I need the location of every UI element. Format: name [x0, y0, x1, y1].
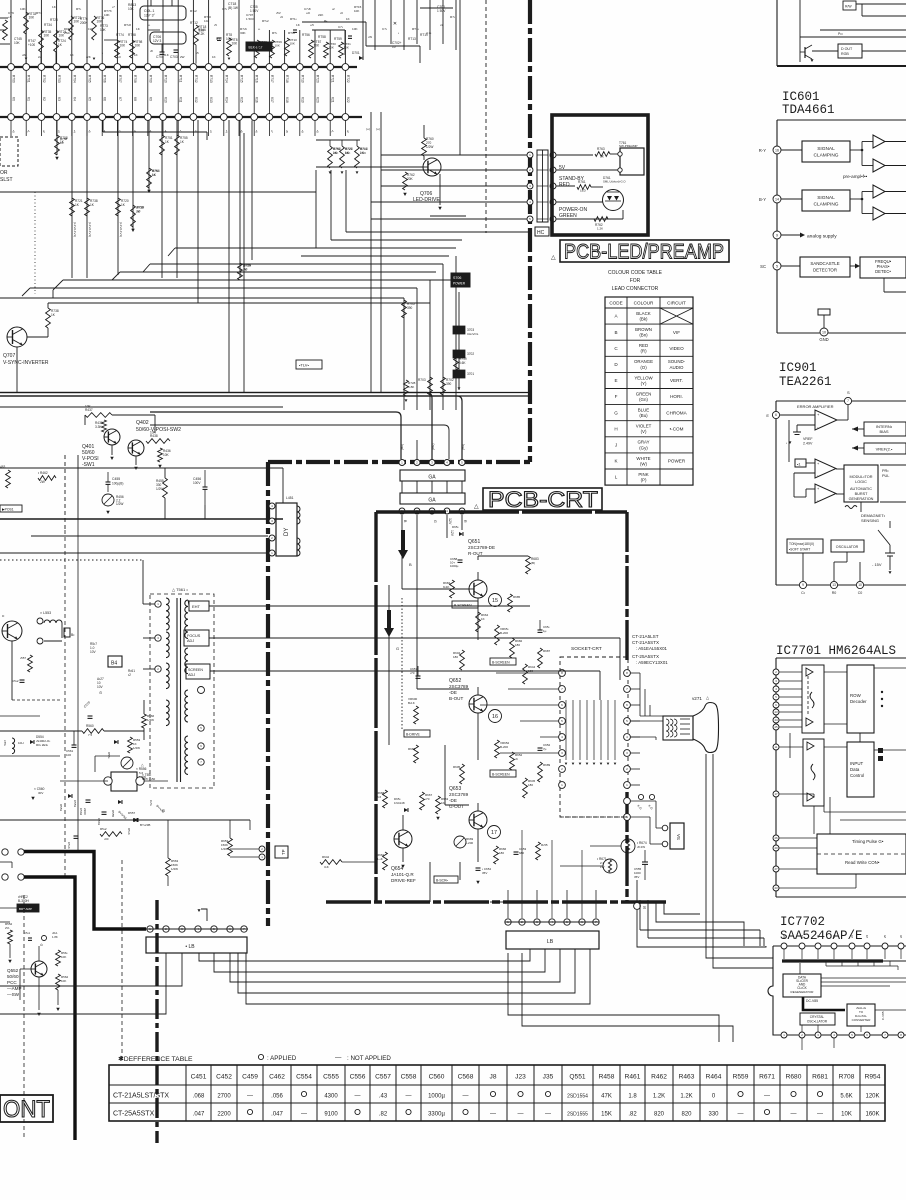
svg-text:VERT.: VERT.	[670, 378, 683, 383]
svg-text:V17: V17	[270, 97, 274, 103]
svg-text:30V: 30V	[38, 791, 43, 795]
svg-text:•5: •5	[240, 130, 244, 133]
svg-text:1/4W: 1/4W	[147, 718, 154, 722]
boxed label B-SCREEN1	[452, 601, 478, 608]
svg-text:10: 10	[858, 583, 862, 587]
wire	[442, 0, 444, 44]
wire	[590, 845, 621, 847]
svg-text:B: B	[409, 562, 412, 567]
svg-text:2.2K: 2.2K	[360, 151, 366, 155]
connector GA bar 2	[400, 493, 465, 504]
flyback primary pins	[155, 601, 161, 607]
LB left pins	[147, 926, 153, 932]
svg-text:C704: C704	[156, 55, 164, 59]
svg-text:LED-DRIVE: LED-DRIVE	[413, 197, 440, 203]
svg-text:2W: 2W	[40, 480, 45, 484]
wire Q706 base	[316, 166, 423, 168]
DY pin 2	[269, 518, 275, 524]
svg-text:330: 330	[708, 1112, 719, 1118]
svg-text:Control: Control	[850, 773, 864, 778]
svg-text:•0: •0	[164, 130, 168, 133]
svg-text:VREF(2.•: VREF(2.•	[876, 447, 893, 452]
svg-text:V15: V15	[240, 97, 244, 103]
svg-text:B4: B4	[111, 661, 117, 667]
svg-text:H: H	[614, 426, 617, 431]
diode D558	[139, 819, 141, 821]
svg-text:GRAY: GRAY	[637, 440, 649, 445]
wire bundle between socket columns	[565, 700, 567, 760]
svg-text:× L553: × L553	[40, 611, 51, 615]
svg-text:180: 180	[499, 851, 504, 855]
svg-text:LOGIC: LOGIC	[855, 480, 867, 484]
wire pin5 loop	[556, 218, 623, 220]
wire	[314, 30, 316, 64]
socket pin L3	[559, 702, 566, 709]
resistor R662	[383, 852, 388, 870]
ground arrow	[403, 193, 407, 196]
svg-text:10K: 10K	[128, 7, 135, 11]
svg-text:3701: 3701	[467, 372, 474, 376]
pin S	[634, 903, 641, 910]
svg-text:CODE: CODE	[609, 301, 622, 306]
svg-text:R559: R559	[733, 1074, 749, 1081]
svg-text:—AMP: —AMP	[7, 986, 22, 991]
svg-text:R719: R719	[300, 75, 304, 83]
pin row2-7	[99, 114, 106, 121]
wire	[56, 0, 58, 64]
svg-text:B-SCREEN: B-SCREEN	[492, 773, 510, 777]
svg-text:1000µ: 1000µ	[428, 1094, 445, 1100]
vref2 box	[864, 443, 906, 454]
svg-text:RT12: RT12	[190, 21, 198, 25]
wire column x177	[176, 120, 178, 278]
row to input vertical	[859, 733, 861, 742]
svg-text:G: G	[433, 520, 437, 523]
wire column x57	[56, 120, 58, 155]
IC901 left border	[775, 401, 777, 585]
svg-text:GA: GA	[428, 475, 436, 481]
IC7701 left border	[775, 658, 777, 897]
pin row1-14	[205, 64, 212, 71]
IC7701 pin 26	[773, 835, 779, 841]
svg-text:21: 21	[832, 934, 836, 938]
svg-text:(W): (W)	[640, 461, 648, 466]
svg-text:GND: GND	[819, 337, 828, 342]
squiggle demagnet	[845, 506, 857, 509]
svg-text:R718: R718	[285, 75, 289, 83]
resistor R562h	[100, 832, 122, 837]
svg-text:D65•: D65•	[452, 525, 459, 529]
svg-text:B-OUT: B-OUT	[449, 696, 463, 701]
svg-text:—: —	[247, 1094, 253, 1100]
svg-text:R711: R711	[179, 75, 183, 83]
resistor R762b	[403, 172, 408, 190]
wire	[147, 0, 149, 64]
nested corner wires extra	[656, 902, 744, 946]
svg-text:SOUND-: SOUND-	[668, 359, 686, 364]
svg-text:2SD1555: 2SD1555	[567, 1112, 588, 1118]
svg-text:2200: 2200	[217, 1112, 231, 1118]
svg-text:24: 24	[774, 718, 778, 722]
resistor R689	[538, 762, 543, 782]
pin 7 S	[844, 397, 851, 404]
IC7701 pin 23b	[773, 885, 779, 891]
box D OUT RGB	[838, 44, 862, 58]
socket pin R4	[624, 718, 631, 725]
horizontal link y132	[103, 131, 207, 133]
svg-text:12V: 12V	[450, 530, 454, 537]
resistor RT76	[92, 16, 97, 40]
box EHT	[189, 601, 209, 611]
svg-text:—: —	[490, 1112, 496, 1118]
nested corner wires right	[667, 905, 706, 907]
svg-text:: APPLIED: : APPLIED	[267, 1055, 297, 1062]
capacitor C563	[102, 811, 107, 813]
pin row2-3	[38, 114, 45, 121]
svg-text:CT-21A5LST: CT-21A5LST	[632, 634, 659, 639]
wire dash to LB	[490, 901, 505, 903]
svg-text:B-200: B-200	[500, 631, 508, 635]
svg-text:R761: R761	[578, 180, 586, 184]
svg-text:-SW1: -SW1	[82, 462, 95, 468]
svg-text:—: —	[545, 1112, 551, 1118]
svg-text:MODUL•TOR: MODUL•TOR	[850, 475, 873, 479]
colour row H	[605, 436, 693, 438]
svg-text:—: —	[355, 1094, 361, 1100]
svg-text:CLAMPING: CLAMPING	[813, 153, 838, 159]
svg-text:⊙: ⊙	[99, 690, 102, 695]
wire right verticals ic901	[860, 522, 862, 540]
wire column x72	[71, 120, 73, 278]
svg-text:•9: •9	[300, 130, 304, 133]
wire	[636, 880, 638, 902]
pin row2-9	[129, 114, 136, 121]
svg-text:BLACK: BLACK	[636, 311, 650, 316]
wire double vertical	[370, 112, 372, 392]
svg-text:2%: 2%	[5, 926, 10, 930]
svg-text:IC901: IC901	[779, 361, 817, 375]
wire column x87	[86, 120, 88, 278]
svg-text:10K: 10K	[329, 46, 334, 50]
pin row2-2	[23, 114, 30, 121]
svg-text:820: 820	[681, 1112, 692, 1118]
svg-text:1K: 1K	[212, 55, 216, 59]
wire rounded bends to GA	[150, 412, 401, 459]
svg-text:⊙: ⊙	[162, 808, 165, 813]
svg-text:•1: •1	[179, 130, 183, 133]
pin row2-4	[53, 114, 60, 121]
svg-text:(Bu): (Bu)	[639, 413, 648, 418]
pin row1-20	[296, 64, 303, 71]
amp triangles 1	[873, 135, 885, 148]
svg-text:•1: •1	[27, 130, 31, 133]
svg-text:10K: 10K	[61, 955, 66, 959]
svg-text:• LB: • LB	[185, 944, 195, 950]
wire	[25, 0, 27, 64]
svg-text:ADJ: ADJ	[187, 639, 194, 643]
wire steps	[53, 280, 63, 290]
svg-text:GREEN: GREEN	[636, 391, 652, 396]
wire to DY	[282, 468, 284, 503]
resistor RT24	[54, 30, 59, 52]
svg-text:1K: 1K	[481, 617, 485, 621]
svg-text:•00: •00	[104, 837, 109, 841]
pin row2-5	[68, 114, 75, 121]
svg-text:V6: V6	[103, 97, 107, 101]
wire	[423, 125, 425, 138]
svg-text:-DE: -DE	[449, 798, 457, 803]
resistor R642	[320, 860, 342, 865]
socket extra pins	[624, 798, 631, 805]
svg-text:Data: Data	[850, 767, 860, 772]
svg-text:C-V85: C-V85	[881, 1011, 885, 1020]
wire column x103	[102, 120, 104, 132]
svg-text:180: 180	[528, 783, 533, 787]
wire column x118	[117, 120, 119, 275]
svg-text:(R0): (R0)	[461, 444, 465, 450]
wire vertical to GA	[455, 256, 457, 410]
wire	[150, 0, 152, 6]
svg-text:R705: R705	[88, 75, 92, 83]
extra long verticals below row2	[197, 120, 199, 303]
svg-text:5: 5	[776, 264, 778, 268]
wire S to right	[637, 910, 766, 947]
svg-text:10K: 10K	[163, 453, 170, 457]
svg-text:•5: •5	[214, 23, 217, 27]
ground arrow	[106, 511, 110, 514]
svg-text:R: R	[463, 520, 467, 523]
wire	[164, 468, 166, 478]
wires Q651	[401, 560, 403, 589]
capacitor C652	[538, 747, 543, 749]
colour row D	[605, 371, 693, 373]
svg-text:1K: 1K	[60, 141, 64, 145]
svg-text:100: 100	[66, 753, 71, 757]
resistor R463	[6, 470, 11, 488]
buffer box 2	[803, 739, 824, 806]
svg-text:BURST: BURST	[855, 492, 869, 496]
resistor R756	[147, 168, 152, 188]
pin row2-6	[84, 114, 91, 121]
svg-text:•-200: •-200	[466, 841, 473, 845]
svg-text:B-SCREEN: B-SCREEN	[492, 661, 510, 665]
svg-text:•2: •2	[128, 673, 131, 677]
wires ic7702 inner	[799, 963, 801, 974]
signal clamping box 1	[802, 141, 850, 162]
wire	[162, 0, 164, 64]
diode D553	[68, 794, 72, 798]
svg-text:•: •	[786, 441, 787, 445]
svg-text:1K: 1K	[70, 53, 74, 57]
svg-text:V7: V7	[118, 97, 122, 101]
svg-text:B-DRIVE: B-DRIVE	[406, 733, 420, 737]
pin row1-21	[312, 64, 319, 71]
svg-text:17: 17	[774, 792, 778, 796]
svg-text:.43: .43	[379, 1094, 388, 1100]
ground arrow	[110, 457, 114, 460]
svg-text:R708: R708	[133, 75, 137, 83]
wire corner 2	[312, 29, 345, 31]
pin row1-16	[236, 64, 243, 71]
svg-text:160K: 160K	[865, 1112, 879, 1118]
svg-text:analog supply: analog supply	[807, 234, 837, 240]
svg-text:R708: R708	[839, 1074, 855, 1081]
svg-text:C553: C553	[73, 800, 77, 808]
capacitor C651	[538, 629, 543, 631]
variable resistor R563	[121, 757, 133, 769]
svg-text:RED: RED	[639, 343, 648, 348]
svg-text:J35: J35	[543, 1074, 554, 1081]
oscillator box	[831, 540, 864, 552]
svg-text:MPF 2•50: MPF 2•50	[142, 777, 156, 781]
wire horizontal y560 left	[0, 559, 143, 561]
svg-text:•2: •2	[346, 130, 350, 133]
svg-text:R437: R437	[85, 408, 93, 412]
svg-text:R0• 2E3•: R0• 2E3•	[36, 743, 48, 747]
svg-text:50/60-V-POSI-SW2: 50/60-V-POSI-SW2	[136, 427, 181, 433]
svg-text:Q551: Q551	[569, 1074, 585, 1081]
svg-text:R706: R706	[103, 75, 107, 83]
capacitor C703	[174, 49, 179, 51]
svg-text:J: J	[615, 442, 617, 447]
svg-text:6.8K: 6.8K	[408, 385, 415, 389]
resistor R687	[538, 648, 543, 668]
crystal oscillator box	[800, 1013, 835, 1025]
svg-text:10V: 10V	[90, 650, 97, 654]
capacitor C566	[74, 835, 79, 837]
wires buffer2	[824, 746, 847, 748]
svg-text:—SW: —SW	[7, 992, 20, 997]
svg-text:(Bn): (Bn)	[639, 333, 648, 338]
svg-text:Q402: Q402	[136, 420, 149, 426]
svg-text:R7•2: R7•2	[190, 9, 197, 13]
resistor R760	[422, 138, 427, 156]
wires Q652	[417, 688, 469, 690]
wire bus row 1	[0, 66, 357, 68]
flyback core	[176, 598, 178, 782]
svg-text:RT74: RT74	[116, 33, 124, 37]
IC601 gnd pin	[818, 309, 830, 315]
svg-text:TP: TP	[281, 849, 286, 855]
svg-text:1 50V: 1 50V	[246, 17, 254, 21]
wire	[192, 0, 194, 64]
op-amp 2	[815, 459, 836, 478]
svg-text:•2: •2	[42, 130, 46, 133]
svg-text:V18: V18	[285, 97, 289, 103]
coil L554	[12, 738, 15, 754]
svg-text:C462: C462	[269, 1074, 285, 1081]
svg-text:22: 22	[850, 934, 854, 938]
socket pin L8	[559, 782, 566, 789]
svg-text:6: 6	[775, 413, 777, 417]
svg-text:2.49V: 2.49V	[803, 442, 813, 446]
capacitor C555b	[642, 861, 648, 863]
svg-text:VIDEO: VIDEO	[669, 346, 684, 351]
transistor Q653	[469, 811, 487, 829]
svg-text:V-SYNC-INVERTER: V-SYNC-INVERTER	[3, 360, 49, 366]
IC7701 pin 6	[773, 702, 779, 708]
svg-text:▶POS1: ▶POS1	[2, 508, 14, 512]
svg-text:B: B	[614, 330, 617, 335]
label title PCB-LED/PREAMP	[560, 240, 729, 262]
wire	[253, 0, 255, 64]
wire horizontal y303	[48, 302, 430, 304]
IC901 bottom pins	[799, 581, 806, 588]
svg-text:4.7•: 4.7•	[426, 31, 431, 35]
wire	[84, 415, 86, 425]
svg-text:RT56: RT56	[302, 33, 310, 37]
svg-text:V22: V22	[346, 97, 350, 103]
wire	[362, 0, 364, 58]
svg-text:25: 25	[774, 725, 778, 729]
wire FOCUS out	[209, 637, 620, 639]
svg-text:12V′ 3°: 12V′ 3°	[144, 14, 155, 18]
svg-text:LB: LB	[547, 939, 554, 945]
svg-text:VREF: VREF	[803, 437, 813, 441]
box FOCUS ADJ	[184, 630, 209, 646]
socket pin R2	[624, 686, 631, 693]
svg-text:SANDCASTLE: SANDCASTLE	[810, 261, 839, 266]
svg-text:C459: C459	[242, 1074, 258, 1081]
pin row1-18	[266, 64, 273, 71]
pin row2-21	[312, 114, 319, 121]
transistor T501	[2, 621, 22, 641]
DY coils	[297, 506, 300, 524]
small box TLV	[296, 360, 322, 369]
wires socket to tube horizontals	[639, 673, 641, 716]
diode D701	[359, 56, 363, 60]
resistor R738b	[46, 308, 51, 328]
svg-text:10K: 10K	[85, 405, 92, 409]
resistor R462	[38, 476, 56, 481]
pcb-crt thick border	[376, 510, 627, 513]
svg-text:•2K: •2K	[86, 55, 91, 59]
svg-text:3.3K: 3.3K	[95, 425, 102, 429]
svg-text:L55•: L55•	[3, 740, 7, 746]
input data control box	[847, 742, 874, 797]
pin row1-2	[23, 64, 30, 71]
svg-text:IC7701 HM6264ALS: IC7701 HM6264ALS	[776, 644, 896, 658]
wire horizontal y468	[0, 467, 283, 469]
svg-text:13: 13	[832, 583, 836, 587]
resistor R682	[510, 638, 515, 658]
svg-text:7.5: 7.5	[88, 733, 93, 737]
svg-text:VIF: VIF	[673, 330, 680, 335]
IC7702 outline	[768, 946, 906, 1035]
svg-text:2SC3789-DE: 2SC3789-DE	[468, 545, 495, 550]
svg-text:WHITE: WHITE	[636, 456, 650, 461]
svg-text:180: 180	[453, 655, 458, 659]
pcb boundary dash-dot horizontal y462	[268, 460, 530, 464]
pin row2-17	[251, 114, 258, 121]
svg-text:C5•2: C5•2	[12, 679, 19, 683]
boxed label B-DRIVE	[404, 730, 430, 737]
tube ground wires	[705, 754, 707, 944]
svg-text:HC: HC	[537, 230, 545, 236]
svg-text:IC7702: IC7702	[780, 915, 825, 929]
wire	[420, 7, 453, 9]
resistor RT23	[69, 16, 74, 40]
lead connector pin pair 4	[527, 199, 533, 205]
svg-text:•8 2W: •8 2W	[637, 845, 645, 849]
pin row1-4	[53, 64, 60, 71]
extra resistors above row1 right half	[255, 40, 260, 58]
svg-text:••: ••	[148, 23, 150, 27]
pin row1-8	[114, 64, 121, 71]
svg-text:R710: R710	[164, 75, 168, 83]
capacitor C455	[106, 481, 111, 483]
capacitor C658	[458, 559, 463, 561]
